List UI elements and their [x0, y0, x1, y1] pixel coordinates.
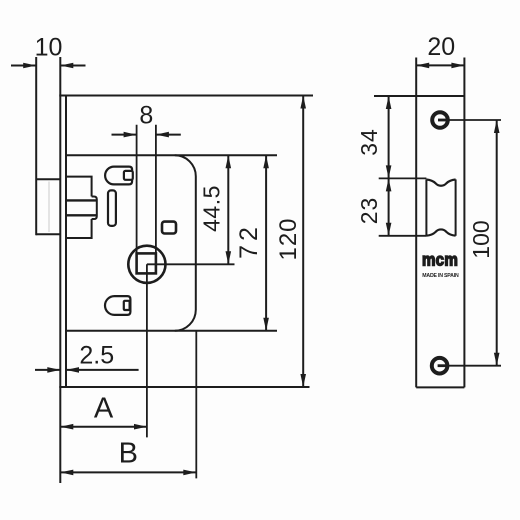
forend plate back edge	[65, 96, 67, 388]
arrow dim100 top	[494, 120, 500, 133]
lock case bottom edge / extension for 72	[66, 330, 277, 332]
lock case rounded right edge	[175, 155, 196, 330]
dim 8 extension lines	[136, 125, 138, 254]
spindle circle	[128, 246, 165, 283]
arrow dim44.5 bottom	[226, 251, 232, 264]
arrow dim8 right	[156, 132, 169, 138]
arrow dimB right	[183, 470, 196, 476]
arrow dim20 left	[416, 63, 429, 69]
latch bolt tip face	[35, 57, 37, 235]
dim 20 line	[416, 64, 464, 66]
latch shaft upper line	[66, 199, 97, 201]
forend plate front edge (left view, vertical line x=60)	[59, 57, 61, 483]
dim 8 line	[112, 134, 137, 136]
forend top edge / 120 extension	[59, 95, 313, 97]
dim 72 line	[265, 155, 267, 330]
arrow dim44.5 top	[226, 155, 232, 168]
svg-text:MADE IN SPAIN: MADE IN SPAIN	[422, 273, 459, 279]
arrow dim10 right (tip at 60.3 pointing left)	[60, 63, 73, 69]
100 extension top	[448, 119, 501, 121]
arrow dim10 left (tip at 36.2,65.5 pointing right)	[23, 63, 36, 69]
roller bolt right edge	[455, 179, 457, 235]
svg-text:10: 10	[35, 34, 63, 62]
latch head top	[36, 178, 60, 180]
lock case top edge / extension for 44.5 and 72	[66, 154, 277, 156]
svg-text:B: B	[119, 438, 138, 470]
dim 2.5 line	[35, 369, 60, 371]
arrow dim100 bottom	[494, 353, 500, 366]
arrow dim72 top	[263, 155, 269, 168]
latch head bottom	[36, 233, 60, 235]
arrow dim34 top	[386, 96, 392, 109]
arrow dim120 top	[300, 96, 306, 109]
svg-text:8: 8	[139, 102, 153, 130]
small hole near right edge	[162, 222, 176, 234]
arrow dim8 left	[124, 132, 137, 138]
dim 44.5 line	[227, 155, 229, 264]
svg-text:100: 100	[468, 220, 494, 258]
arrow dim2.5 right	[66, 367, 79, 373]
latch head bevel (faint)	[48, 182, 50, 233]
svg-text:2.5: 2.5	[79, 342, 114, 370]
dim A line	[60, 426, 147, 428]
dim 100 line	[496, 120, 498, 366]
arrow dimA right	[134, 424, 147, 430]
arrow dim20 right	[451, 63, 464, 69]
svg-text:44.5: 44.5	[199, 185, 225, 232]
svg-text:20: 20	[427, 33, 455, 61]
dim B extension	[195, 331, 197, 479]
dim 10 line	[11, 65, 36, 67]
100 extension bottom	[448, 365, 501, 367]
roller concave top	[426, 180, 455, 186]
dim 120 line	[302, 96, 304, 388]
arrow dimA left	[60, 424, 73, 430]
latch body behind forend	[66, 177, 92, 238]
dim 23 line	[388, 178, 390, 235]
arrow dim23 bottom	[386, 223, 392, 236]
dim 34 line	[388, 96, 390, 178]
centerline right from spindle	[147, 263, 235, 265]
right view: faceplate left edge	[415, 58, 417, 388]
centerline down from spindle (A extension)	[146, 264, 148, 437]
guide bar	[108, 190, 116, 226]
right view: faceplate bottom edge	[416, 386, 464, 388]
latch shaft lower line	[66, 214, 97, 216]
forend bottom edge / 120 extension	[59, 386, 309, 388]
arrow dim120 bottom	[300, 374, 306, 387]
small square on lower capsule	[124, 301, 130, 310]
screw post capsule upper	[105, 167, 132, 185]
top screw	[432, 112, 448, 128]
svg-text:mcm: mcm	[422, 249, 458, 270]
dim 34 extension (shared with 23)	[379, 177, 427, 179]
dim B line	[60, 471, 196, 473]
small square on upper capsule	[124, 171, 133, 180]
spindle square 8mm	[137, 253, 156, 273]
arrow dim34 bottom	[386, 165, 392, 178]
svg-text:34: 34	[356, 128, 382, 156]
dim 23 bottom extension	[379, 235, 427, 237]
arrow dim23 top	[386, 178, 392, 191]
arrow dim2.5 left	[47, 367, 60, 373]
bottom screw	[432, 358, 448, 374]
right view: faceplate top edge / 34 extension	[374, 95, 464, 97]
svg-text:A: A	[94, 393, 114, 425]
latch shaft tab	[92, 197, 97, 220]
roller concave bottom	[426, 229, 455, 235]
right view: faceplate right edge	[463, 58, 465, 388]
screw post capsule lower	[105, 296, 130, 315]
arrow dim72 bottom	[263, 318, 269, 331]
arrow dimB left	[60, 470, 73, 476]
svg-text:72: 72	[235, 223, 263, 259]
roller bolt left edge	[425, 179, 427, 235]
svg-text:120: 120	[275, 217, 302, 260]
svg-text:23: 23	[356, 197, 382, 225]
